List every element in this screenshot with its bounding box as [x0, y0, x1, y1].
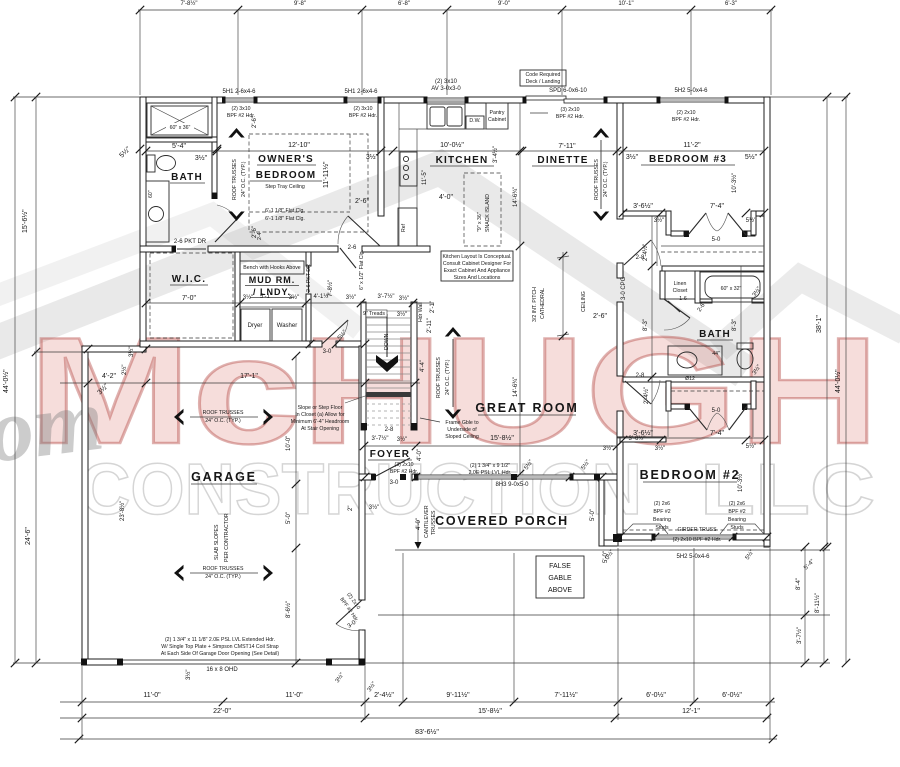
door hall to wic/mud (2-6) [340, 248, 356, 268]
wall bedroom3 closet jog left vertical [666, 211, 671, 235]
dim bottom line 2 [60, 717, 770, 719]
patio door SPD 6-0x6-10 [526, 96, 566, 100]
tick marks at bedroom3 bottom wall [619, 209, 627, 217]
svg-text:2'-1": 2'-1" [430, 301, 436, 313]
shower size label [166, 123, 194, 131]
wall garage right lower after side door [359, 630, 365, 665]
stairs wall end caps [361, 423, 367, 430]
svg-text:BEDROOM #3: BEDROOM #3 [649, 154, 727, 165]
svg-text:3-0: 3-0 [323, 349, 332, 355]
svg-text:(3) 2x10: (3) 2x10 [560, 107, 579, 113]
svg-text:5½": 5½" [745, 153, 758, 161]
svg-text:Consult Cabinet Designer For: Consult Cabinet Designer For [443, 261, 512, 267]
svg-text:9" Treads: 9" Treads [363, 311, 385, 317]
svg-text:3½": 3½" [243, 294, 253, 301]
wall bedroom2 top west piece [620, 437, 666, 442]
svg-text:3/2 INT. PITCH: 3/2 INT. PITCH [532, 287, 538, 322]
tick marks at left wall y97 area [136, 145, 144, 153]
svg-text:1-6: 1-6 [679, 296, 687, 302]
svg-text:OWNER'S: OWNER'S [258, 154, 314, 165]
svg-text:6" x 1/2" Flat Clg.: 6" x 1/2" Flat Clg. [359, 250, 365, 290]
svg-text:ROOF TRUSSES: ROOF TRUSSES [203, 566, 244, 572]
dim bottom line 1 [60, 701, 775, 703]
svg-text:5H1 2-6x4-6: 5H1 2-6x4-6 [222, 89, 256, 95]
svg-text:6'-1 1/8" Flat Clg.: 6'-1 1/8" Flat Clg. [265, 208, 305, 214]
svg-text:(2) 3x10: (2) 3x10 [231, 106, 250, 112]
svg-text:Hdr Wall: Hdr Wall [418, 302, 424, 322]
wall bedroom2 left [617, 437, 623, 540]
svg-text:6'-0½": 6'-0½" [722, 691, 742, 699]
jamb cap garage left corner [81, 659, 87, 666]
svg-text:10'-0½": 10'-0½" [440, 141, 464, 149]
svg-text:2'-4½": 2'-4½" [643, 387, 650, 404]
svg-text:3'-6½": 3'-6½" [629, 435, 646, 442]
svg-text:BPF #2: BPF #2 [653, 509, 670, 515]
svg-text:24" O.C. (TYP.): 24" O.C. (TYP.) [603, 161, 609, 197]
tick marks mud bottom wall [306, 340, 314, 348]
svg-text:5H2 5-0x4-6: 5H2 5-0x4-6 [674, 88, 708, 94]
door foyer front entry [376, 458, 410, 476]
svg-text:Ref: Ref [401, 223, 407, 232]
svg-text:3-0: 3-0 [390, 480, 399, 486]
svg-text:Bearing: Bearing [653, 517, 671, 523]
wall tub front stub right [752, 299, 764, 303]
svg-text:(2) 1 3/4" x 9 1/2": (2) 1 3/4" x 9 1/2" [470, 463, 510, 469]
svg-text:GREAT ROOM: GREAT ROOM [475, 401, 578, 415]
svg-text:8'-6½": 8'-6½" [285, 601, 292, 618]
svg-text:16 x 8 OHD: 16 x 8 OHD [206, 667, 238, 673]
svg-text:BPF #2: BPF #2 [728, 509, 745, 515]
svg-text:Sizes And Locations: Sizes And Locations [454, 275, 501, 281]
svg-text:W.I.C.: W.I.C. [172, 274, 206, 285]
bed2 bearing stud trapezoid left [623, 524, 668, 534]
svg-text:2-8: 2-8 [385, 427, 394, 433]
jamb cap garage door left [117, 659, 123, 666]
jamb cap garage door right [326, 659, 332, 666]
svg-text:DINETTE: DINETTE [537, 155, 588, 166]
wall top exterior segment B [254, 97, 347, 103]
wall left exterior bath+wic [140, 97, 146, 346]
dinette truss arrow down [593, 212, 609, 222]
svg-text:PER CONTRACTOR: PER CONTRACTOR [224, 513, 230, 562]
svg-text:8H3 9-0x5-0: 8H3 9-0x5-0 [495, 482, 529, 488]
dim right horizontal extensions [770, 96, 848, 98]
svg-text:7'-0": 7'-0" [182, 295, 196, 302]
wall bedroom3 closet jog right vertical [751, 211, 756, 235]
svg-text:KITCHEN: KITCHEN [436, 155, 489, 166]
wall bath/owners bedroom mid [212, 142, 217, 193]
wall front door jamb piece [412, 474, 418, 480]
svg-text:8'-4": 8'-4" [796, 578, 802, 590]
stairs treads label box [366, 310, 387, 317]
svg-text:15'-8½": 15'-8½" [478, 707, 502, 715]
svg-text:5'-1": 5'-1" [260, 294, 272, 300]
svg-text:Pantry: Pantry [490, 110, 505, 116]
great room truss line [452, 339, 454, 407]
door garage side to porch [336, 600, 362, 624]
wall mud/wic bottom (garage north) segment [140, 341, 310, 347]
svg-text:7'-8½": 7'-8½" [327, 280, 334, 297]
wall top exterior segment D [465, 97, 526, 103]
svg-text:2-6: 2-6 [348, 245, 357, 251]
wall top exterior segment C [378, 97, 427, 103]
great room truss arrow down [445, 410, 461, 420]
mud bench box [240, 261, 304, 274]
svg-text:(2) 3x10: (2) 3x10 [435, 79, 458, 85]
svg-text:ROOF TRUSSES: ROOF TRUSSES [203, 410, 244, 416]
shower stall [147, 103, 212, 138]
svg-text:Studs: Studs [655, 525, 669, 531]
svg-text:CANTILEVER: CANTILEVER [424, 505, 430, 538]
wall x617 lower to front wall [617, 411, 623, 480]
svg-text:SNACK ISLAND: SNACK ISLAND [485, 194, 491, 232]
window 8H3 9-0x5-0 great room front [418, 475, 570, 479]
door mud to garage 3-0 [322, 320, 348, 344]
svg-text:7'-11": 7'-11" [558, 143, 576, 150]
jamb caps top wall windows [222, 97, 226, 104]
svg-text:14'-6¾": 14'-6¾" [513, 377, 519, 397]
svg-text:2'-6": 2'-6" [355, 198, 369, 205]
dim great room vertical x520 [519, 103, 521, 474]
wall bath north (closet bottom) [662, 266, 764, 271]
wall tub front stub [700, 299, 712, 303]
svg-text:23'-8½": 23'-8½" [119, 501, 126, 521]
bath1 toilet [147, 155, 155, 172]
svg-text:6'-1 1/8" Flat Clg.: 6'-1 1/8" Flat Clg. [265, 216, 305, 222]
svg-text:COVERED PORCH: COVERED PORCH [435, 514, 569, 528]
dinette ceiling dim line x563 ticks [559, 252, 567, 260]
svg-text:Dryer: Dryer [248, 323, 263, 329]
bed2 closet rod dashed [671, 390, 764, 392]
svg-text:ABOVE: ABOVE [548, 587, 572, 594]
wall garage right / foyer left [359, 346, 365, 600]
stairs down arrow head [376, 355, 398, 372]
svg-text:Bearing: Bearing [728, 517, 746, 523]
kitchen counter edge [399, 128, 508, 130]
svg-text:Frame Gble to: Frame Gble to [445, 420, 478, 426]
wall bedroom3 closet recessed right [742, 231, 747, 238]
svg-text:BPF #2 Hdr.: BPF #2 Hdr. [349, 113, 377, 119]
svg-text:Studs: Studs [730, 525, 744, 531]
svg-text:3½": 3½" [654, 217, 664, 224]
svg-text:6'-3": 6'-3" [725, 1, 737, 7]
svg-text:Slope or Step Floor: Slope or Step Floor [298, 405, 343, 411]
svg-text:6'-0½": 6'-0½" [646, 691, 666, 699]
pocket door panel wic [177, 248, 206, 250]
dim mud line y303 [146, 302, 434, 304]
wall front (great room south) west piece [359, 474, 375, 480]
svg-text:3½": 3½" [603, 445, 613, 452]
wall mud bottom segment with door gap [310, 341, 322, 347]
jamb caps great room window [414, 474, 418, 481]
dim bottom line 3 [60, 738, 777, 740]
wall garage top [82, 346, 146, 352]
svg-text:17'-1": 17'-1" [240, 373, 258, 380]
svg-text:8'-11½": 8'-11½" [814, 593, 821, 613]
wall bath south [623, 377, 764, 382]
svg-text:15'-6½": 15'-6½" [21, 209, 29, 233]
washer box [272, 309, 302, 341]
svg-text:(2) 2x6: (2) 2x6 [729, 501, 745, 507]
wall bedroom3 bottom east piece [756, 211, 764, 216]
svg-text:At Each Side Of Garage Door Op: At Each Side Of Garage Door Opening (See… [161, 651, 279, 657]
kitchen dishwasher [466, 116, 484, 129]
bath2 linen closet [665, 271, 695, 299]
stairs landing hatch [366, 392, 411, 397]
window 5H1 2-6x4-6 mid [347, 98, 378, 102]
svg-text:ROOF TRUSSES: ROOF TRUSSES [594, 159, 600, 200]
dim left horizontal extensions [13, 96, 140, 98]
svg-text:15'-8½": 15'-8½" [490, 434, 514, 442]
svg-text:FALSE: FALSE [549, 563, 571, 570]
svg-text:4'-0": 4'-0" [416, 518, 422, 530]
svg-text:83'-6½": 83'-6½" [415, 728, 439, 736]
svg-text:Step Tray Ceiling: Step Tray Ceiling [265, 184, 305, 190]
ticks bedroom2 bottom [651, 533, 659, 541]
wall bath west jamb [660, 271, 665, 299]
svg-text:12'-1": 12'-1" [682, 708, 700, 715]
svg-text:BPF #2 Hdr.: BPF #2 Hdr. [390, 469, 418, 475]
svg-text:11'-5": 11'-5" [422, 170, 428, 185]
svg-text:BPF #2 Hdr.: BPF #2 Hdr. [672, 117, 700, 123]
wall bedroom2 closet recessed right stub [742, 404, 747, 411]
dim great room line y446 [364, 445, 617, 447]
dim top extension lines [139, 10, 141, 95]
svg-text:3'-6½": 3'-6½" [633, 202, 653, 210]
svg-text:3½": 3½" [397, 311, 407, 318]
wall bedroom3 bottom west piece [623, 211, 666, 216]
svg-text:5H2 5-0x4-6: 5H2 5-0x4-6 [676, 554, 710, 560]
wall linen/tub divider [695, 271, 700, 303]
kitchen note box [441, 251, 513, 281]
svg-text:5-0: 5-0 [712, 237, 721, 243]
stairs down arrow line [386, 314, 388, 357]
wall bedroom3 closet recessed left [671, 231, 684, 236]
svg-text:MUD RM.: MUD RM. [249, 275, 296, 285]
cathedral ceiling line [562, 252, 564, 340]
svg-text:W/ Single Top Plate + Simpson: W/ Single Top Plate + Simpson CMST14 Coi… [161, 644, 279, 650]
svg-text:9'-11½": 9'-11½" [446, 691, 470, 699]
svg-text:24" O.C. (TYP.): 24" O.C. (TYP.) [205, 574, 241, 580]
svg-text:2'-6": 2'-6" [593, 313, 607, 320]
svg-text:22'-0": 22'-0" [213, 708, 231, 715]
svg-text:Washer: Washer [277, 323, 297, 329]
svg-text:24" O.C. (TYP.): 24" O.C. (TYP.) [205, 418, 241, 424]
svg-text:Underside of: Underside of [447, 427, 477, 433]
svg-text:BPF #2 Hdr.: BPF #2 Hdr. [227, 113, 255, 119]
svg-text:Linen: Linen [674, 281, 687, 287]
wall porch right to bedroom2 stub [604, 540, 618, 546]
window 5H1 2-6x4-6 left [225, 98, 254, 102]
wall stairs right (hdr wall) [411, 302, 417, 430]
svg-text:12'-10": 12'-10" [288, 142, 310, 149]
owners bedroom truss arrow up [228, 128, 244, 138]
svg-text:3'-4½": 3'-4½" [492, 146, 499, 163]
tick marks at bedroom2 top wall [619, 436, 627, 444]
kitchen pantry cabinet [486, 103, 508, 129]
svg-text:5½": 5½" [746, 217, 756, 224]
svg-text:/ LNDY.: / LNDY. [253, 287, 291, 297]
kitchen fridge [398, 208, 417, 246]
wall bedroom2 closet recessed left stub [671, 404, 685, 409]
bath2 toilet [737, 343, 753, 349]
wall great room east / hall (x617) upper dinette-bed3 [617, 103, 623, 219]
dim line hall x657 [656, 216, 658, 266]
wall right exterior [764, 97, 770, 547]
dim left 15-6 / 24-6 line [35, 97, 37, 663]
bed2 girder truss dash line [623, 529, 764, 531]
svg-text:7'-4": 7'-4" [710, 203, 724, 210]
great room truss arrow up [445, 327, 461, 337]
linen closet door [668, 301, 680, 312]
watermark group [0, 168, 900, 530]
bifold doors bedroom3 closet [688, 213, 706, 235]
wall mud right with pocket door gap [306, 252, 311, 266]
wall owners bedroom bottom / wic top with pocket door gap [140, 246, 172, 252]
svg-text:Kitchen Layout Is Conceptual.: Kitchen Layout Is Conceptual. [443, 254, 512, 260]
svg-text:3½": 3½" [289, 294, 299, 301]
svg-text:"9" x 36": "9" x 36" [477, 212, 483, 232]
label FALSE GABLE ABOVE [536, 556, 584, 598]
svg-text:(2) 2x10: (2) 2x10 [676, 110, 695, 116]
bed3 closet rod dashed [661, 251, 764, 253]
svg-text:CATHEDRAL: CATHEDRAL [540, 288, 546, 319]
svg-text:3½": 3½" [128, 347, 135, 357]
svg-text:3½": 3½" [626, 153, 639, 161]
dinette truss arrow up [593, 128, 609, 138]
svg-text:3½": 3½" [655, 445, 665, 452]
bath2 vanity [668, 346, 722, 375]
svg-text:Sloped Ceiling: Sloped Ceiling [445, 434, 479, 440]
door owners bedroom entry [348, 216, 380, 246]
svg-text:GARAGE: GARAGE [191, 470, 257, 484]
wall garage bottom left piece [82, 659, 122, 665]
svg-text:GABLE: GABLE [548, 575, 572, 582]
svg-text:3½": 3½" [369, 504, 379, 511]
svg-text:24" O.C. (TYP.): 24" O.C. (TYP.) [241, 161, 247, 197]
svg-text:Bench with Hooks Above: Bench with Hooks Above [243, 265, 300, 271]
bedroom2 bottom-left corner block [613, 534, 622, 542]
svg-text:2½": 2½" [121, 365, 128, 375]
svg-text:60": 60" [148, 190, 154, 198]
svg-text:7'-4": 7'-4" [710, 430, 724, 437]
owners bedroom truss arrow down [228, 212, 244, 222]
wall porch right [599, 480, 604, 546]
svg-text:7'-8½": 7'-8½" [181, 0, 198, 7]
svg-text:Ø12: Ø12 [685, 376, 695, 382]
svg-text:3½": 3½" [185, 670, 192, 680]
svg-text:10'-3½": 10'-3½" [731, 173, 738, 193]
svg-text:Exact Cabinet And Appliance: Exact Cabinet And Appliance [444, 268, 511, 274]
dim right small lines 8-4 / 8-11 / 3-7 [804, 547, 806, 663]
dim interior upper line y151 [146, 150, 764, 152]
svg-text:3-0 CPG: 3-0 CPG [621, 276, 627, 300]
door bath to owners bedroom [215, 219, 237, 242]
wall top exterior segment A [140, 97, 225, 103]
bifold doors bedroom2 closet [689, 408, 707, 430]
svg-text:9'-8": 9'-8" [294, 1, 306, 7]
svg-text:BATH: BATH [171, 172, 203, 183]
svg-text:10'-3½": 10'-3½" [737, 472, 744, 492]
svg-text:4'-0": 4'-0" [439, 194, 453, 201]
svg-text:2'-11": 2'-11" [427, 318, 433, 333]
porch slab posts [400, 474, 406, 480]
svg-text:2-8: 2-8 [636, 255, 645, 261]
svg-text:2'-4½": 2'-4½" [374, 691, 394, 699]
dim right 38-1 line [826, 97, 828, 547]
svg-text:4'-0": 4'-0" [417, 449, 423, 461]
svg-text:6'-8": 6'-8" [398, 1, 410, 7]
dryer box [241, 309, 270, 341]
wic shelving dashed [150, 253, 233, 338]
kitchen sink [427, 104, 465, 129]
svg-text:(2) 1 3/4" x 11 1/8" 2.0E PSL: (2) 1 3/4" x 11 1/8" 2.0E PSL LVL Extend… [165, 637, 275, 643]
svg-text:5H1 2-6x4-6: 5H1 2-6x4-6 [344, 89, 378, 95]
svg-text:SPD 6-0x6-10: SPD 6-0x6-10 [549, 88, 587, 94]
svg-text:24" O.C. (TYP.): 24" O.C. (TYP.) [445, 359, 451, 395]
svg-text:60" x 32": 60" x 32" [721, 286, 742, 292]
svg-text:4'-2": 4'-2" [102, 373, 116, 380]
svg-text:5'-0": 5'-0" [590, 509, 596, 521]
svg-text:FOYER: FOYER [370, 449, 410, 460]
jamb caps bedroom2 window [652, 534, 656, 541]
svg-text:7'-11½": 7'-11½" [554, 691, 578, 699]
svg-text:11'-2": 11'-2" [683, 142, 701, 149]
svg-text:5'-4": 5'-4" [172, 143, 186, 150]
svg-text:BEDROOM: BEDROOM [256, 170, 317, 181]
svg-text:AV 3-0x3-0: AV 3-0x3-0 [431, 86, 461, 92]
wall shower right / bath east upper [212, 97, 217, 142]
jamb cap front door left [371, 474, 376, 480]
wall wic right / mud left [235, 252, 240, 341]
svg-text:38'-1": 38'-1" [816, 315, 823, 333]
wall owners bedroom east / kitchen west [378, 97, 384, 216]
svg-text:60" x 36": 60" x 36" [170, 125, 191, 131]
svg-text:ROOF TRUSSES: ROOF TRUSSES [232, 159, 238, 200]
wall garage bottom right piece [327, 659, 365, 665]
dim bath vertical x652 [651, 216, 653, 437]
svg-text:ROOF TRUSSES: ROOF TRUSSES [436, 357, 442, 398]
svg-text:BATH: BATH [699, 329, 731, 340]
ticks front wall [361, 473, 369, 481]
garage truss arrow left 2 [174, 565, 184, 581]
svg-text:(2) 2x10 BPF #2 Hdr.: (2) 2x10 BPF #2 Hdr. [673, 537, 722, 543]
svg-text:In Closet (a) Allow for: In Closet (a) Allow for [295, 412, 345, 418]
svg-text:DOWN: DOWN [384, 333, 390, 350]
svg-text:5'-0": 5'-0" [286, 512, 292, 524]
wall top exterior segment F [725, 97, 770, 103]
kitchen snack island dashed [464, 173, 501, 246]
svg-text:2-6 PKT DR: 2-6 PKT DR [306, 264, 312, 292]
svg-text:10'-1": 10'-1" [618, 1, 633, 7]
svg-text:LLC: LLC [700, 450, 875, 530]
garage truss arrow right 1 [264, 409, 274, 425]
cantilever truss down arrow [415, 542, 422, 549]
wall shower bottom [146, 137, 217, 142]
dim bottom vertical extensions [81, 666, 83, 740]
svg-text:24'-6": 24'-6" [25, 527, 32, 545]
svg-text:BEDROOM #2: BEDROOM #2 [640, 468, 741, 482]
svg-text:14'-6¾": 14'-6¾" [513, 187, 519, 207]
window 5H2 5-0x4-6 bedroom3 [660, 98, 725, 102]
svg-text:3½": 3½" [399, 295, 409, 302]
wall bedroom2 bottom outer line [617, 545, 770, 547]
svg-text:(3) 2x10: (3) 2x10 [394, 462, 413, 468]
svg-text:Code Required: Code Required [526, 72, 561, 78]
svg-text:(2) 2x6: (2) 2x6 [654, 501, 670, 507]
wall bedroom2 closet left vertical [666, 381, 671, 411]
bedroom2 top dim line [617, 437, 764, 439]
